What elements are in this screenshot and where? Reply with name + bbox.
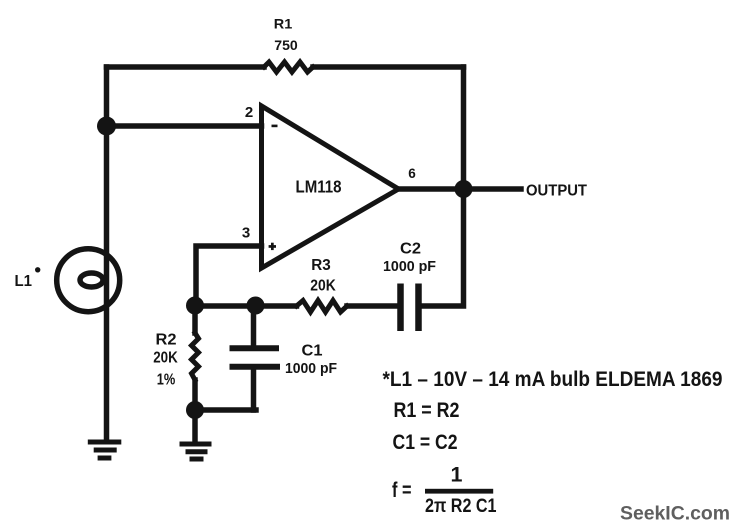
svg-text:C1: C1 [302, 343, 323, 360]
capacitor C1 [230, 348, 281, 366]
wire C1 bottom lead vertical [251, 369, 257, 410]
lamp L1 [57, 249, 120, 312]
wire R3 to node C [195, 303, 297, 309]
wire node D to ground [192, 410, 198, 441]
note formula f = 1 / (2 pi R2 C1) [392, 463, 497, 518]
svg-text:LM118: LM118 [296, 177, 342, 197]
svg-text:C1 = C2: C1 = C2 [393, 430, 458, 454]
resistor R1 [264, 62, 313, 72]
svg-text:6: 6 [408, 166, 416, 181]
resistor R2 [192, 333, 199, 380]
node D junction dot [186, 401, 204, 419]
node A junction dot [97, 117, 116, 136]
wire top-left horizontal from left rail to R1 [107, 64, 265, 70]
wire node D to C1 bottom lead [195, 407, 256, 413]
svg-text:1000 pF: 1000 pF [383, 259, 436, 275]
svg-text:*L1 – 10V – 14 mA bulb ELDEMA: *L1 – 10V – 14 mA bulb ELDEMA 1869 [383, 367, 723, 391]
svg-text:L1: L1 [15, 273, 33, 290]
capacitor C2 [401, 284, 419, 332]
wire non-inverting input down to node B [196, 246, 262, 306]
svg-text:1%: 1% [157, 372, 176, 389]
wire output from op-amp apex [399, 186, 464, 192]
wire R2 to node D [192, 380, 198, 410]
svg-text:SeekIC.com: SeekIC.com [620, 503, 730, 525]
wire right rail down from output node to C2 [422, 189, 464, 306]
wire C1 top lead to node C [251, 306, 257, 346]
svg-text:1000 pF: 1000 pF [285, 361, 337, 377]
wire from R1 to top-right corner [313, 64, 464, 70]
op-amp U1 LM118 [262, 106, 399, 268]
node C junction dot [247, 297, 265, 315]
svg-text:1: 1 [451, 463, 463, 487]
svg-text:f =: f = [392, 478, 412, 502]
svg-text:OUTPUT: OUTPUT [526, 183, 587, 200]
svg-text:2π R2 C1: 2π R2 C1 [425, 496, 497, 517]
svg-text:R2: R2 [156, 332, 177, 349]
plus sign non-inverting input [269, 243, 276, 250]
svg-text:2: 2 [245, 104, 253, 121]
svg-text:20K: 20K [153, 350, 178, 367]
resistor R3 [297, 301, 348, 313]
asterisk superscript for L1 [35, 267, 40, 272]
ground under L1 [88, 442, 122, 458]
svg-text:20K: 20K [310, 278, 336, 295]
svg-text:3: 3 [242, 225, 250, 242]
svg-text:750: 750 [274, 37, 298, 53]
node OUT junction dot [455, 180, 473, 198]
svg-text:R3: R3 [311, 257, 331, 274]
wire right rail vertical down to output node [461, 67, 467, 189]
node B junction dot [186, 297, 204, 315]
svg-text:R1: R1 [274, 16, 293, 32]
wire C2 to R3 [347, 303, 397, 309]
svg-text:C2: C2 [400, 241, 421, 258]
wire node B down to R2 [192, 306, 198, 333]
minus sign inverting input [272, 125, 278, 128]
wire left rail vertical [104, 67, 110, 441]
wire inverting input to node A [107, 123, 262, 129]
ground under node D [180, 444, 212, 459]
svg-text:R1 = R2: R1 = R2 [394, 398, 460, 422]
wire output stub to OUTPUT label [464, 186, 522, 192]
